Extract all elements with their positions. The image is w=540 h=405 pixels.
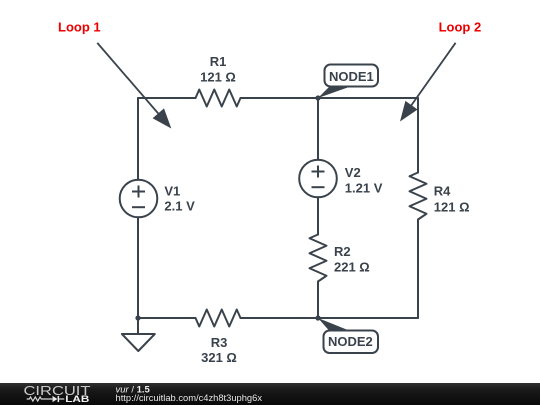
- NODE1 callout tail: [318, 87, 349, 98]
- annotation Loop 2 arrowhead: [400, 101, 418, 122]
- svg-text:R2: R2: [334, 244, 351, 259]
- V1 plus sign: [132, 186, 145, 198]
- svg-text:V2: V2: [345, 165, 361, 180]
- svg-text:121 Ω: 121 Ω: [200, 70, 236, 85]
- svg-text:221 Ω: 221 Ω: [334, 260, 370, 275]
- footer logo diode glyph: [53, 396, 65, 402]
- NODE1 callout box: [325, 65, 379, 87]
- NODE2 callout box: [324, 331, 379, 354]
- wire top: R1 right to top-right corner and NODE1 junction: [241, 97, 419, 99]
- wire bottom: R3 right to bottom-right corner: [241, 317, 419, 319]
- V2 minus sign: [312, 186, 325, 188]
- annotation Loop 2 arrow line: [408, 43, 456, 110]
- svg-text:R3: R3: [211, 335, 228, 350]
- svg-text:V1: V1: [164, 184, 180, 199]
- wire left branch: V1 bottom down to ground junction: [137, 217, 139, 318]
- svg-text:NODE1: NODE1: [329, 69, 374, 84]
- junction dot at ground: [135, 315, 140, 320]
- junction dot NODE2: [315, 315, 320, 320]
- junction dot NODE1: [315, 95, 320, 100]
- resistor R1 zigzag: [196, 90, 241, 107]
- NODE2 callout tail: [318, 318, 349, 331]
- wire middle branch: R2 bottom to NODE2 junction: [317, 282, 319, 319]
- svg-text:R4: R4: [434, 184, 451, 199]
- wire middle branch: V2 bottom to R2 top: [317, 197, 319, 234]
- footer logo resistor glyph: [27, 397, 53, 401]
- wire right branch: R4 bottom down to bottom-right corner: [417, 220, 419, 319]
- annotation Loop 1 arrow line: [97, 43, 163, 119]
- V1 minus sign: [132, 206, 145, 208]
- svg-text:Loop 1: Loop 1: [58, 20, 101, 35]
- svg-text:R1: R1: [210, 54, 227, 69]
- svg-text:LAB: LAB: [65, 394, 90, 404]
- wire middle branch: NODE1 junction down to V2 top: [317, 98, 319, 160]
- wire right branch: top-right corner down to R4 top: [417, 98, 419, 173]
- resistor R4 zigzag: [410, 173, 427, 220]
- svg-text:2.1 V: 2.1 V: [164, 198, 195, 213]
- wire left branch: top-left corner down to V1 top: [137, 98, 139, 180]
- ground symbol: [122, 318, 155, 351]
- voltage source V2 circle: [299, 160, 337, 198]
- resistor R3 zigzag: [196, 310, 241, 327]
- svg-text:121 Ω: 121 Ω: [434, 199, 470, 214]
- wire top: node A (138,98) to R1 left: [138, 97, 196, 99]
- svg-text:http://circuitlab.com/c4zh8t3u: http://circuitlab.com/c4zh8t3uphg6x: [116, 393, 263, 404]
- svg-text:NODE2: NODE2: [328, 334, 373, 349]
- footer bar: [0, 383, 540, 405]
- svg-text:Loop 2: Loop 2: [439, 20, 482, 35]
- voltage source V1 circle: [120, 180, 158, 218]
- svg-text:1.21 V: 1.21 V: [345, 180, 383, 195]
- svg-text:321 Ω: 321 Ω: [201, 350, 237, 365]
- resistor R2 zigzag: [310, 235, 327, 282]
- annotation Loop 1 arrowhead: [153, 108, 172, 128]
- wire bottom: ground junction to R3 left: [138, 317, 196, 319]
- V2 plus sign: [312, 166, 325, 178]
